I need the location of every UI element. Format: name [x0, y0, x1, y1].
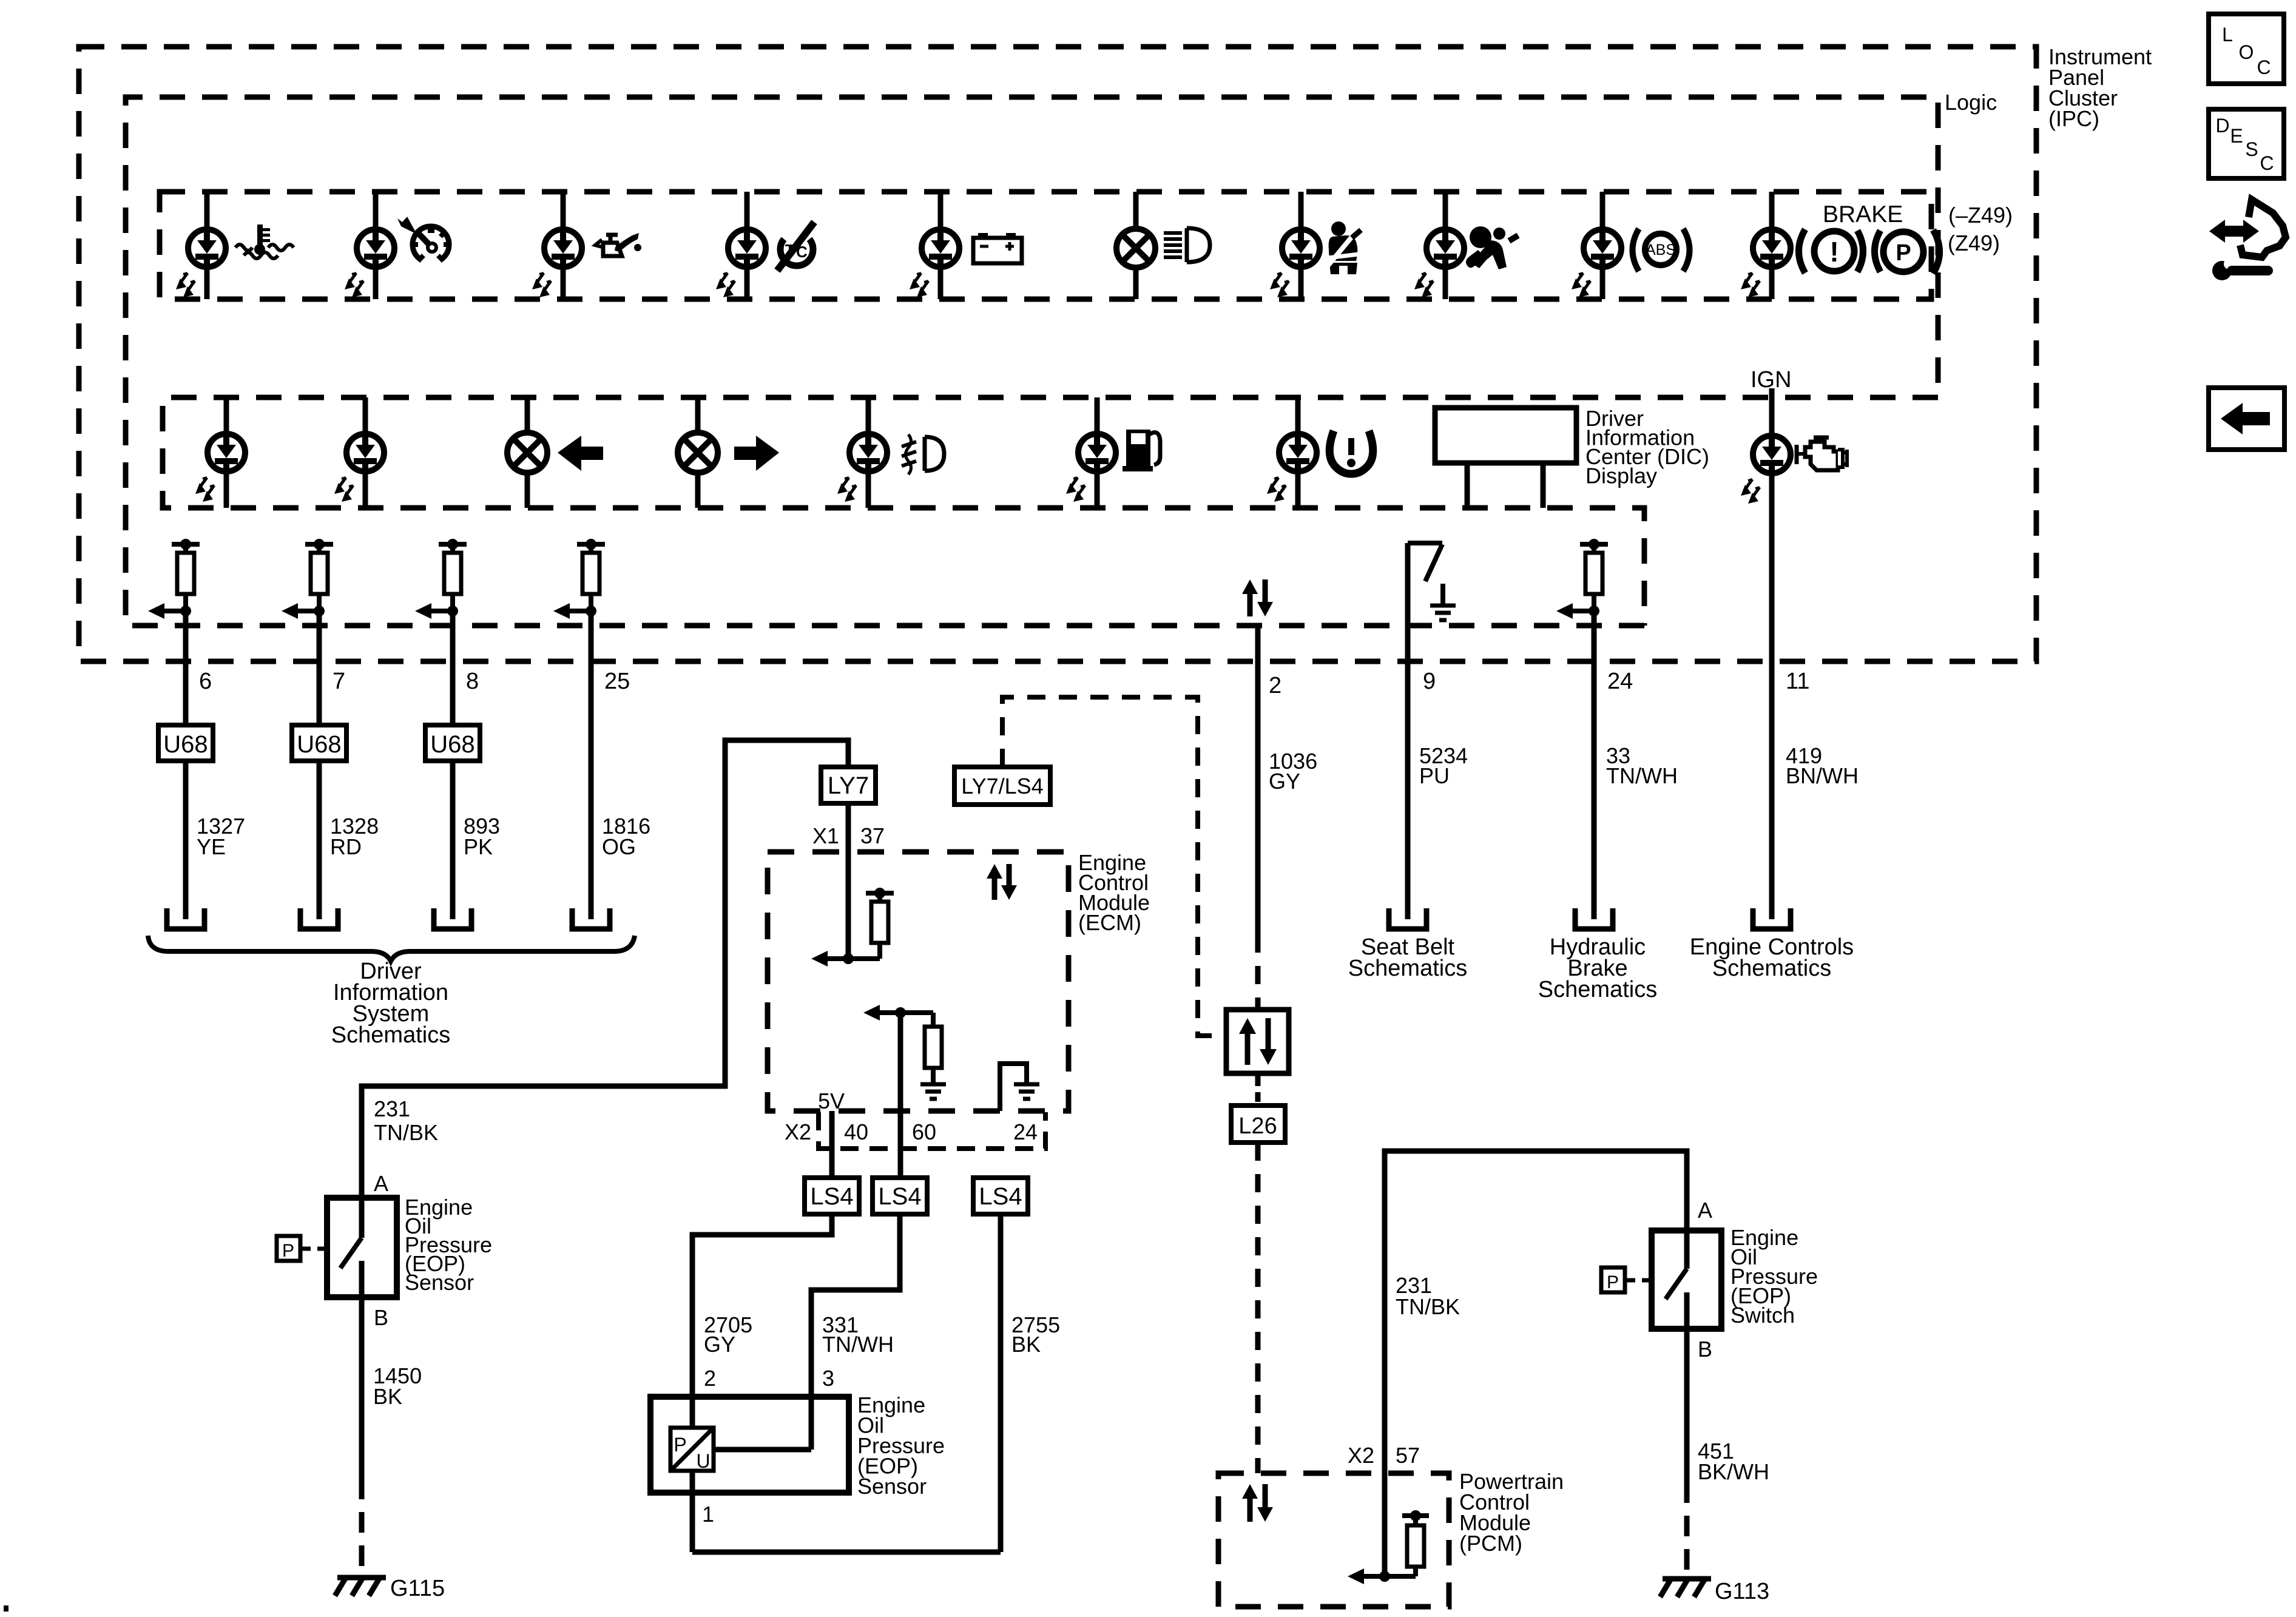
svg-text:U68: U68 [163, 731, 208, 758]
svg-text:60: 60 [912, 1119, 936, 1144]
svg-text:YE: YE [197, 834, 226, 859]
svg-text:B: B [374, 1305, 388, 1330]
svg-text:TN/WH: TN/WH [822, 1332, 894, 1357]
svg-text:!: ! [1829, 236, 1838, 268]
svg-text:(Z49): (Z49) [1948, 231, 2000, 255]
svg-text:U68: U68 [297, 731, 341, 758]
svg-text:IGN: IGN [1751, 367, 1792, 393]
svg-text:Schematics: Schematics [331, 1022, 450, 1048]
svg-text:BRAKE: BRAKE [1823, 201, 1903, 228]
svg-text:24: 24 [1607, 669, 1633, 694]
svg-text:P: P [1896, 240, 1911, 266]
svg-text:11: 11 [1786, 669, 1809, 694]
svg-text:GY: GY [1269, 769, 1300, 794]
svg-text:O: O [2239, 41, 2254, 63]
svg-text:(–Z49): (–Z49) [1948, 203, 2013, 228]
svg-text:2: 2 [1269, 673, 1281, 698]
svg-text:7: 7 [333, 669, 345, 694]
svg-text:(IPC): (IPC) [2048, 106, 2099, 131]
svg-text:37: 37 [860, 823, 885, 848]
svg-text:Schematics: Schematics [1348, 956, 1467, 981]
svg-text:P: P [282, 1241, 294, 1261]
svg-text:OG: OG [602, 834, 636, 859]
svg-text:6: 6 [199, 669, 212, 694]
svg-text:U: U [696, 1450, 710, 1472]
svg-text:A: A [374, 1171, 388, 1196]
svg-text:BK: BK [373, 1384, 402, 1409]
svg-text:9: 9 [1423, 669, 1436, 694]
svg-text:25: 25 [604, 669, 630, 694]
svg-text:ABS: ABS [1646, 241, 1676, 258]
svg-text:TN/BK: TN/BK [374, 1120, 438, 1145]
svg-text:(PCM): (PCM) [1459, 1531, 1522, 1556]
svg-text:Logic: Logic [1945, 90, 1997, 115]
svg-text:PK: PK [464, 834, 493, 859]
svg-text:Switch: Switch [1730, 1303, 1795, 1328]
svg-text:Schematics: Schematics [1538, 977, 1657, 1002]
svg-text:C: C [2260, 152, 2274, 174]
svg-text:LS4: LS4 [810, 1183, 853, 1210]
svg-text:PU: PU [1419, 763, 1450, 788]
svg-text:57: 57 [1396, 1443, 1420, 1468]
svg-text:D: D [2215, 115, 2229, 137]
svg-text:LS4: LS4 [979, 1183, 1022, 1210]
svg-text:Sensor: Sensor [857, 1474, 927, 1499]
svg-text:GY: GY [704, 1332, 735, 1357]
svg-text:L: L [2222, 24, 2233, 46]
svg-text:LY7/LS4: LY7/LS4 [961, 774, 1043, 798]
svg-text:A: A [1698, 1198, 1712, 1223]
svg-text:2: 2 [704, 1366, 716, 1391]
svg-text:S: S [2245, 138, 2258, 160]
svg-text:231: 231 [374, 1096, 410, 1121]
svg-text:B: B [1698, 1337, 1712, 1362]
svg-text:Display: Display [1585, 464, 1657, 488]
svg-text:C: C [2257, 56, 2271, 78]
svg-text:5V: 5V [818, 1089, 845, 1113]
svg-text:E: E [2230, 125, 2243, 147]
svg-text:BN/WH: BN/WH [1786, 763, 1859, 788]
svg-text:TN/WH: TN/WH [1606, 763, 1678, 788]
svg-text:T: T [785, 241, 795, 259]
svg-text:P: P [1607, 1272, 1619, 1292]
svg-text:LS4: LS4 [878, 1183, 921, 1210]
svg-text:LY7: LY7 [828, 772, 869, 799]
svg-text:X2: X2 [1348, 1443, 1374, 1468]
svg-text:C: C [796, 243, 808, 261]
svg-text:8: 8 [466, 669, 479, 694]
svg-text:G115: G115 [390, 1576, 445, 1601]
svg-text:Schematics: Schematics [1712, 956, 1831, 981]
svg-text:X1: X1 [812, 823, 839, 848]
svg-text:L26: L26 [1238, 1113, 1277, 1139]
svg-text:Sensor: Sensor [405, 1270, 474, 1295]
svg-text:X2: X2 [785, 1119, 811, 1144]
svg-text:3: 3 [822, 1366, 834, 1391]
svg-text:BK: BK [1011, 1332, 1041, 1357]
svg-text:G113: G113 [1715, 1579, 1769, 1604]
svg-text:U68: U68 [430, 731, 474, 758]
svg-text:24: 24 [1013, 1119, 1038, 1144]
svg-text:BK/WH: BK/WH [1698, 1459, 1769, 1484]
svg-text:P: P [674, 1434, 686, 1456]
svg-text:1: 1 [702, 1502, 714, 1527]
svg-text:(ECM): (ECM) [1078, 910, 1141, 935]
svg-text:RD: RD [330, 834, 362, 859]
svg-text:TN/BK: TN/BK [1396, 1294, 1460, 1319]
svg-text:40: 40 [844, 1119, 868, 1144]
